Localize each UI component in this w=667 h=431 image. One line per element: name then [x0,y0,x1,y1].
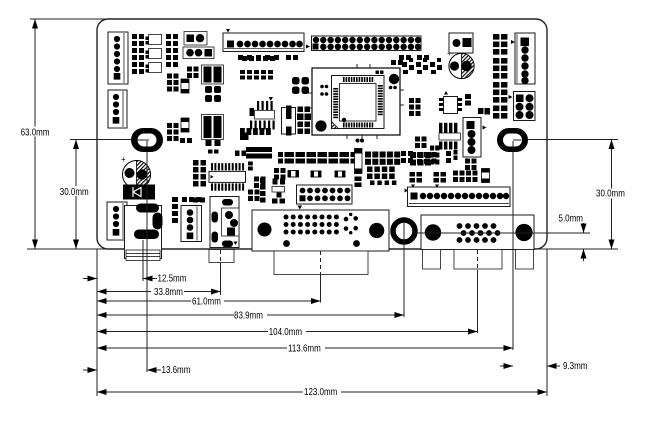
svg-text:113.6mm: 113.6mm [288,343,321,354]
svg-text:63.0mm: 63.0mm [21,127,50,138]
svg-text:9.3mm: 9.3mm [563,360,587,371]
svg-text:123.0mm: 123.0mm [304,386,337,397]
svg-text:104.0mm: 104.0mm [269,326,302,337]
svg-text:83.9mm: 83.9mm [234,310,263,321]
svg-text:12.5mm: 12.5mm [158,273,187,284]
svg-text:5.0mm: 5.0mm [559,213,583,224]
svg-text:+: + [121,155,126,164]
svg-text:30.0mm: 30.0mm [60,186,89,197]
svg-text:61.0mm: 61.0mm [192,296,221,307]
svg-text:13.6mm: 13.6mm [162,364,191,375]
svg-text:30.0mm: 30.0mm [596,188,625,199]
svg-text:33.8mm: 33.8mm [154,286,183,297]
